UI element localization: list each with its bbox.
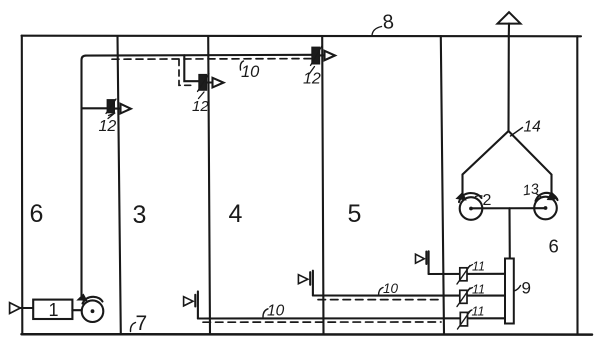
wire: top rope dashed run 10 — [112, 58, 311, 61]
leader for label 14 — [511, 128, 523, 137]
svg-text:4: 4 — [229, 200, 243, 228]
svg-text:11: 11 — [472, 305, 485, 319]
wire: top rope solid run 10 — [86, 54, 312, 57]
drive box 1 — [33, 300, 72, 319]
leader for label 12b — [199, 92, 205, 99]
section divider between compartments 3 and 4 — [208, 36, 210, 334]
section divider between compartment 5 and hoist bay — [441, 36, 444, 334]
svg-text:6: 6 — [30, 200, 44, 228]
wire: hoist line down to junction 14 — [507, 36, 509, 131]
svg-text:11: 11 — [472, 260, 485, 274]
svg-text:12: 12 — [303, 71, 321, 88]
wire: drive box 1 to winch drum — [72, 309, 81, 311]
svg-text:14: 14 — [524, 119, 542, 136]
inlet arrow at winch 1 — [10, 303, 21, 314]
anchor fitting A1 — [184, 291, 198, 318]
anchor fitting A3 — [416, 251, 429, 274]
leader for label 8 — [372, 27, 382, 36]
wire: step-down branch dashed — [179, 60, 195, 86]
arrow after clamp 12a — [115, 104, 131, 114]
wire: step-down branch solid to clamp 12b — [184, 55, 198, 81]
wire: frame to drive box 1 — [20, 307, 33, 309]
svg-text:9: 9 — [522, 279, 531, 298]
section divider between compartments 6 and 3 — [118, 36, 121, 334]
clamp 12c at end of top rope — [311, 46, 323, 66]
wire: branch to clamp 12a — [82, 107, 107, 109]
svg-text:10: 10 — [383, 281, 399, 296]
leader for label 10 bottom — [263, 309, 268, 317]
svg-text:12: 12 — [99, 118, 117, 135]
carriage frame border left — [21, 36, 24, 334]
arrow after clamp 12c — [320, 51, 336, 60]
arrow after clamp 12b — [207, 78, 224, 88]
svg-text:12: 12 — [192, 98, 209, 115]
sheave 2 — [457, 193, 483, 220]
clamp 12b — [198, 74, 210, 92]
svg-text:8: 8 — [382, 11, 395, 34]
carriage frame border bottom — [22, 333, 593, 336]
turnbuckle 11b — [457, 288, 470, 307]
svg-text:1: 1 — [49, 300, 59, 320]
wire: axle line between sheave centers — [471, 207, 546, 209]
equalizer bar 9 — [505, 259, 514, 324]
svg-text:2: 2 — [483, 192, 492, 209]
wire: sling right leg — [509, 131, 552, 193]
svg-text:13: 13 — [522, 181, 540, 199]
wire: bottom rope 10 dashed — [203, 321, 441, 323]
svg-text:3: 3 — [133, 201, 147, 229]
leader for label 12a — [108, 113, 115, 118]
turnbuckle 11c — [458, 311, 471, 330]
svg-text:10: 10 — [241, 63, 260, 81]
sheave 13 — [534, 192, 557, 219]
wire: top tie rod to bar 9 — [429, 273, 505, 275]
carriage frame border top — [22, 35, 582, 38]
wire: middle rope 10 dashed — [318, 299, 442, 301]
svg-text:6: 6 — [549, 236, 559, 257]
leader for label 11b — [469, 288, 473, 290]
section divider between compartments 4 and 5 — [322, 36, 323, 334]
anchor fitting A2 — [298, 271, 313, 296]
carriage frame border right — [576, 36, 578, 334]
leader for label 13 — [536, 194, 542, 198]
leader for label 7 — [130, 323, 135, 332]
wire: rope from winch 1 up left side — [82, 56, 87, 296]
svg-text:5: 5 — [348, 200, 362, 228]
turnbuckle 11a — [457, 266, 470, 285]
leader for label 10 top — [240, 61, 243, 70]
leader for label 11c — [469, 310, 472, 312]
leader for label 2 — [476, 195, 483, 198]
crane hook symbol above frame — [498, 12, 521, 36]
wire: drop line from axle to equalizer bar 9 — [508, 208, 510, 258]
wire: bottom rope 10 solid to bar 9 — [198, 317, 505, 319]
leader for label 9 — [514, 286, 521, 292]
leader for label 12c — [310, 67, 315, 74]
leader for label 10 middle — [379, 288, 384, 296]
wire: sling left leg — [463, 131, 509, 194]
svg-text:10: 10 — [267, 303, 285, 320]
clamp 12a — [106, 99, 116, 114]
svg-text:7: 7 — [136, 312, 148, 335]
wire: middle rope 10 solid to bar 9 — [313, 294, 505, 296]
winch drum — [78, 294, 104, 322]
leader for label 11a — [469, 265, 473, 268]
svg-text:11: 11 — [472, 283, 485, 297]
